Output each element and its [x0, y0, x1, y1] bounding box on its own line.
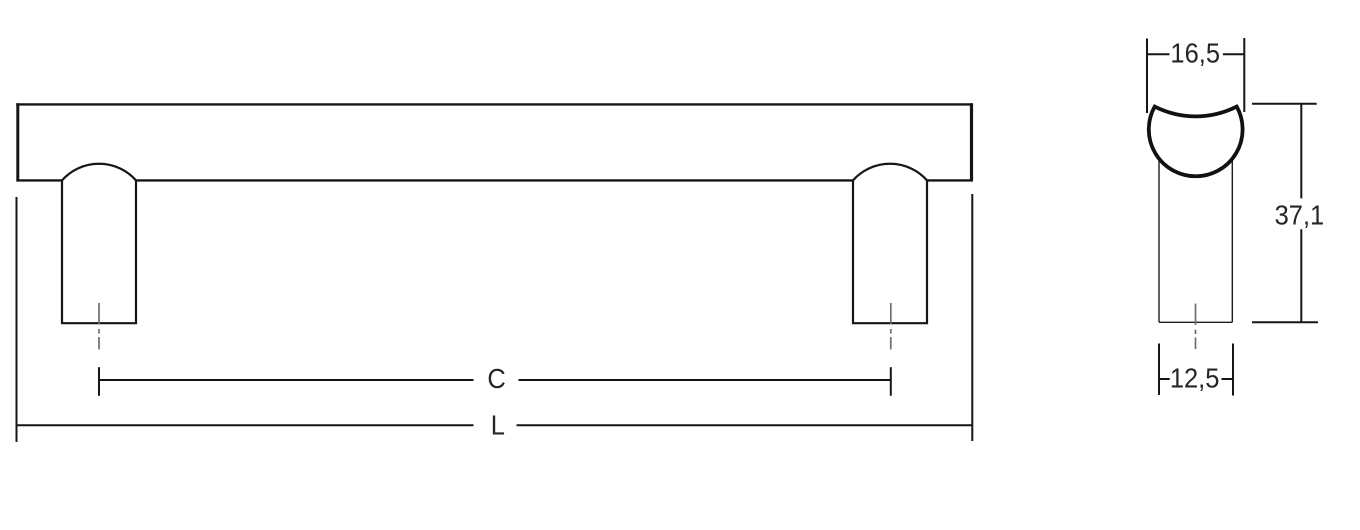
post side-view rectangle: [1159, 158, 1232, 322]
bar cross-section crescent (side view): [1149, 107, 1243, 177]
16,5 right extension line (side view): [1243, 38, 1245, 112]
svg-text:12,5: 12,5: [1170, 362, 1220, 393]
L left extension line: [16, 197, 18, 442]
label C: [487, 363, 505, 394]
12,5 left extension line: [1158, 344, 1160, 396]
svg-text:16,5: 16,5: [1170, 37, 1220, 68]
label 12,5: [1170, 362, 1220, 393]
svg-text:C: C: [487, 363, 505, 394]
L right extension line: [971, 194, 973, 441]
label 16,5: [1170, 37, 1220, 68]
left post centerline: [98, 303, 100, 350]
handle bar outline (front view): [16, 103, 973, 180]
label 37,1: [1275, 199, 1325, 230]
dimension line 12,5: [1159, 378, 1233, 380]
left post (front view): [62, 164, 136, 323]
label L: [491, 409, 505, 440]
dimension line C: [99, 367, 891, 396]
right post centerline: [890, 303, 892, 350]
right post (front view): [853, 164, 927, 323]
16,5 left extension line (side view): [1146, 39, 1148, 114]
dimension line 37,1: [1252, 104, 1318, 322]
12,5 right extension line: [1232, 344, 1234, 396]
svg-text:L: L: [491, 409, 505, 440]
side view centerline: [1195, 304, 1197, 350]
svg-text:37,1: 37,1: [1275, 199, 1325, 230]
dimension line L: [17, 424, 973, 426]
dimension line 16,5: [1147, 53, 1244, 55]
